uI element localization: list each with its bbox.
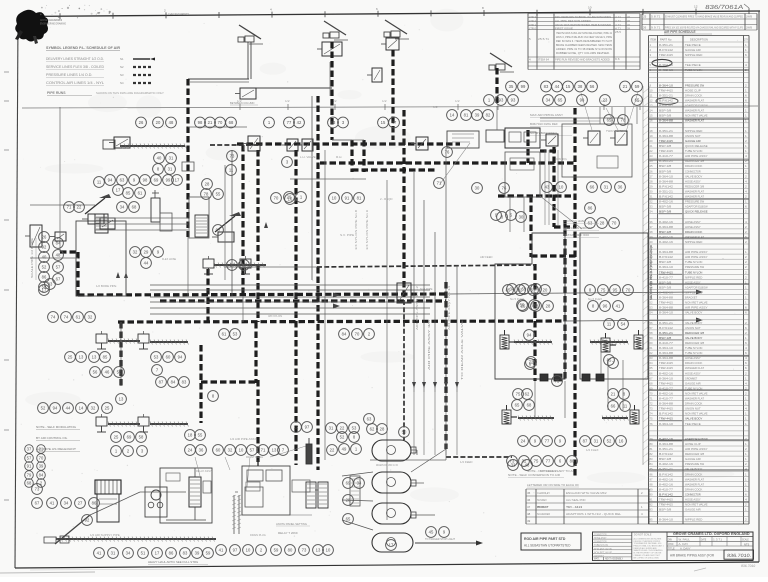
svg-text:HOSE ASSY: HOSE ASSY	[685, 179, 701, 183]
svg-text:55: 55	[117, 370, 122, 375]
svg-text:49: 49	[342, 447, 347, 452]
svg-text:34: 34	[64, 501, 69, 506]
svg-text:NON RET VALVE: NON RET VALVE	[685, 392, 708, 396]
svg-text:CONNECTOR: CONNECTOR	[685, 169, 701, 173]
svg-text:31: 31	[329, 426, 334, 431]
svg-text:34: 34	[120, 205, 125, 210]
svg-text:32: 32	[650, 200, 654, 204]
svg-text:AIR PIPE ASSY No 12: AIR PIPE ASSY No 12	[415, 285, 419, 330]
svg-text:88: 88	[650, 482, 654, 486]
svg-text:8-364-10: 8-364-10	[659, 174, 673, 178]
svg-text:TO REAR AXLE VALVE: TO REAR AXLE VALVE	[460, 320, 464, 380]
svg-text:80: 80	[288, 548, 293, 553]
svg-text:BSP-3/8: BSP-3/8	[659, 144, 672, 148]
svg-text:22: 22	[340, 426, 345, 431]
svg-text:B.P.6142: B.P.6142	[659, 99, 673, 103]
svg-text:70: 70	[626, 288, 631, 293]
svg-text:44: 44	[555, 84, 560, 89]
svg-text:29: 29	[287, 195, 292, 200]
svg-text:63: 63	[531, 288, 536, 293]
svg-text:REDUCER 3/8: REDUCER 3/8	[685, 184, 704, 188]
svg-text:HOSE CLIP: HOSE CLIP	[685, 442, 701, 446]
svg-text:FRONT PANEL: FRONT PANEL	[246, 455, 264, 459]
svg-text:29: 29	[650, 184, 654, 188]
svg-text:PART No: PART No	[660, 38, 672, 42]
svg-text:39: 39	[195, 551, 200, 556]
svg-text:68: 68	[527, 403, 532, 408]
svg-text:30: 30	[650, 190, 654, 194]
svg-text:31: 31	[169, 156, 174, 161]
svg-text:A. DAVY: A. DAVY	[680, 546, 691, 550]
svg-text:35: 35	[509, 84, 514, 89]
svg-text:89: 89	[242, 263, 247, 268]
svg-text:17: 17	[155, 551, 160, 556]
svg-text:1/2 FLEX: 1/2 FLEX	[586, 448, 599, 452]
svg-text:17: 17	[389, 543, 394, 548]
svg-text:99: 99	[521, 84, 526, 89]
svg-text:WASHER FLAT: WASHER FLAT	[685, 190, 704, 194]
svg-text:37: 37	[650, 225, 654, 229]
svg-text:91: 91	[27, 464, 32, 469]
svg-text:94: 94	[230, 263, 235, 268]
svg-text:21: 21	[623, 84, 628, 89]
svg-text:DESCRIPTION: DESCRIPTION	[690, 38, 708, 42]
svg-text:89: 89	[650, 487, 654, 491]
svg-text:TEE PIECE: TEE PIECE	[685, 43, 701, 47]
svg-text:11: 11	[623, 404, 628, 409]
svg-text:HOSE ASSY: HOSE ASSY	[594, 537, 607, 540]
svg-text:SYMBOL LEGEND P.L. SCHEDULE: SYMBOL LEGEND P.L. SCHEDULE OF AIR	[46, 46, 120, 50]
svg-text:PIPE RUNS: PIPE RUNS	[47, 91, 66, 95]
svg-text:98: 98	[580, 98, 585, 103]
svg-text:TRW-4415: TRW-4415	[659, 498, 673, 502]
svg-text:B36/7010 DWG REF: B36/7010 DWG REF	[530, 122, 558, 126]
svg-text:68: 68	[650, 381, 654, 385]
svg-text:60: 60	[216, 448, 221, 453]
svg-text:VALVE BODY: VALVE BODY	[685, 174, 702, 178]
svg-text:8-364-10: 8-364-10	[659, 422, 673, 426]
svg-text:8-364-88: 8-364-88	[659, 250, 673, 254]
svg-text:84: 84	[56, 241, 61, 246]
svg-text:N2: N2	[120, 65, 124, 69]
svg-text:ITEM: ITEM	[650, 38, 656, 42]
svg-text:36: 36	[199, 448, 204, 453]
svg-text:98: 98	[198, 120, 203, 125]
svg-text:12: 12	[694, 5, 698, 9]
svg-text:JW/B: JW/B	[746, 26, 752, 30]
svg-text:WASHER FLAT: WASHER FLAT	[685, 195, 704, 199]
svg-text:No 6 FLEX: No 6 FLEX	[588, 297, 602, 301]
svg-text:FIRST ISSUE: FIRST ISSUE	[555, 27, 573, 31]
svg-text:10: 10	[246, 548, 251, 553]
svg-text:8-351-21: 8-351-21	[659, 331, 673, 335]
svg-text:73: 73	[302, 548, 307, 553]
svg-text:NON RET VALVE: NON RET VALVE	[594, 548, 612, 551]
svg-text:NOTE - SELF CONVERSION TO A: NOTE - SELF CONVERSION TO AIR	[508, 473, 560, 477]
svg-text:25.5.71: 25.5.71	[538, 37, 550, 41]
svg-text:NTS: NTS	[744, 542, 749, 546]
svg-text:B.P.6142: B.P.6142	[659, 255, 673, 259]
svg-text:14: 14	[450, 113, 455, 118]
svg-text:4.71: 4.71	[615, 15, 622, 19]
svg-text:13: 13	[79, 355, 84, 360]
svg-text:70: 70	[218, 120, 223, 125]
svg-text:13: 13	[272, 448, 277, 453]
svg-text:4.71: 4.71	[615, 19, 622, 23]
svg-text:NON RET VALVE: NON RET VALVE	[685, 114, 708, 118]
svg-text:NIPPLE RED: NIPPLE RED	[685, 53, 703, 57]
svg-text:49: 49	[527, 519, 531, 523]
svg-text:AIR PIPE ASSY: AIR PIPE ASSY	[685, 250, 708, 254]
svg-text:8-364-10: 8-364-10	[659, 518, 673, 522]
svg-text:84: 84	[650, 462, 654, 466]
svg-text:26: 26	[42, 235, 47, 240]
svg-text:WASHER FLAT: WASHER FLAT	[685, 482, 704, 486]
svg-text:95: 95	[650, 518, 654, 522]
svg-text:PIPE RUN REVISED AND BRACKETS: PIPE RUN REVISED AND BRACKETS ADDED	[555, 58, 610, 62]
svg-text:TUBE NYLON: TUBE NYLON	[685, 351, 702, 355]
svg-text:62: 62	[525, 392, 530, 397]
svg-text:NIPPLE RED: NIPPLE RED	[685, 518, 703, 522]
svg-text:40: 40	[42, 255, 47, 260]
svg-text:41: 41	[50, 501, 55, 506]
svg-text:71: 71	[67, 205, 72, 210]
svg-text:77: 77	[546, 459, 551, 464]
svg-text:22: 22	[330, 448, 335, 453]
svg-text:50: 50	[402, 430, 407, 435]
svg-text:BY AIR CONTROL OIL: BY AIR CONTROL OIL	[36, 436, 68, 440]
svg-text:LTR 0: LTR 0	[529, 27, 536, 31]
svg-text:UNION NUT: UNION NUT	[685, 326, 701, 330]
svg-text:23: 23	[603, 98, 608, 103]
svg-text:32: 32	[88, 315, 93, 320]
svg-text:11: 11	[650, 94, 654, 98]
svg-text:BSP-3/8: BSP-3/8	[659, 508, 672, 512]
svg-text:85: 85	[607, 358, 612, 363]
svg-text:BSP-3/8: BSP-3/8	[659, 457, 672, 461]
svg-text:58: 58	[139, 435, 144, 440]
svg-text:57: 57	[56, 265, 61, 270]
svg-text:HOSE ASSY: HOSE ASSY	[685, 220, 701, 224]
svg-text:47: 47	[527, 505, 531, 509]
svg-text:22: 22	[650, 149, 654, 153]
svg-text:45: 45	[650, 265, 654, 269]
svg-text:28: 28	[380, 427, 385, 432]
svg-text:TITLE: TITLE	[668, 548, 675, 550]
svg-text:BSP-3/8: BSP-3/8	[659, 285, 672, 289]
svg-text:13: 13	[316, 548, 321, 553]
svg-text:JW/B: JW/B	[746, 15, 752, 19]
svg-text:26: 26	[139, 120, 144, 125]
svg-text:60: 60	[166, 355, 171, 360]
svg-text:BSP-3/8: BSP-3/8	[659, 169, 672, 173]
svg-text:8-364-10: 8-364-10	[659, 311, 673, 315]
svg-text:83: 83	[650, 457, 654, 461]
svg-text:9.9.71: 9.9.71	[651, 26, 661, 30]
svg-text:86: 86	[588, 206, 593, 211]
svg-text:97: 97	[233, 548, 238, 553]
svg-text:71: 71	[261, 448, 266, 453]
svg-text:8-351-21: 8-351-21	[659, 467, 673, 471]
svg-text:91: 91	[650, 498, 654, 502]
svg-text:GAUGE AIR: GAUGE AIR	[685, 139, 701, 143]
svg-text:TEE PIECE: TEE PIECE	[685, 63, 701, 67]
svg-text:CHKD: CHKD	[668, 544, 674, 546]
svg-text:59: 59	[635, 84, 640, 89]
svg-text:8-351-21: 8-351-21	[659, 129, 673, 133]
svg-text:57: 57	[27, 456, 32, 461]
svg-text:48: 48	[169, 120, 174, 125]
svg-text:WASHER FLAT: WASHER FLAT	[685, 397, 704, 401]
svg-text:AIR PIPE ASSY 3/8: AIR PIPE ASSY 3/8	[427, 319, 431, 370]
svg-text:836.7010.: 836.7010.	[727, 553, 752, 558]
svg-text:No4 PIPE: No4 PIPE	[420, 287, 433, 291]
svg-text:68: 68	[27, 481, 32, 486]
svg-text:34: 34	[546, 98, 551, 103]
svg-text:32: 32	[133, 250, 138, 255]
svg-text:83: 83	[183, 551, 188, 556]
svg-text:8-351-21: 8-351-21	[659, 447, 673, 451]
svg-text:29: 29	[144, 250, 149, 255]
svg-text:TRI - 4413: TRI - 4413	[566, 505, 583, 509]
svg-text:BSP-3/8: BSP-3/8	[659, 230, 672, 234]
svg-text:DRAIN COCK: DRAIN COCK	[685, 164, 702, 168]
svg-text:69: 69	[127, 435, 132, 440]
svg-text:HOSE ASSY: HOSE ASSY	[685, 371, 701, 375]
svg-text:8-402-16: 8-402-16	[659, 477, 673, 481]
svg-text:45: 45	[527, 491, 531, 495]
svg-text:13: 13	[119, 397, 124, 402]
svg-text:10: 10	[326, 548, 331, 553]
svg-text:8-364-10: 8-364-10	[659, 83, 673, 87]
svg-text:85: 85	[506, 288, 511, 293]
svg-text:NIPPLE RED: NIPPLE RED	[685, 129, 703, 133]
svg-text:DELIVERY LINES STRAIGHT 1/2: DELIVERY LINES STRAIGHT 1/2 O.D.	[46, 57, 104, 61]
svg-text:85: 85	[126, 191, 131, 196]
svg-text:GAUGE AIR: GAUGE AIR	[685, 381, 701, 385]
svg-text:1/4 NYLON PIPE No 8: 1/4 NYLON PIPE No 8	[354, 209, 358, 250]
svg-text:VALVE BODY: VALVE BODY	[685, 321, 702, 325]
svg-text:WASHER FLAT: WASHER FLAT	[685, 366, 704, 370]
svg-text:S.V. PIPE: S.V. PIPE	[340, 233, 354, 237]
svg-text:DATE: DATE	[701, 538, 707, 541]
svg-text:10: 10	[588, 5, 592, 9]
svg-text:31: 31	[594, 439, 599, 444]
svg-text:39: 39	[475, 113, 480, 118]
svg-text:37: 37	[27, 447, 32, 452]
svg-text:55: 55	[216, 192, 221, 197]
svg-text:NIPPLE RED: NIPPLE RED	[685, 240, 703, 244]
svg-text:SCHRADER: SCHRADER	[537, 512, 550, 516]
svg-text:8-364-88: 8-364-88	[659, 356, 673, 360]
svg-text:CONNECTOR: CONNECTOR	[685, 493, 701, 497]
svg-text:8-402-16: 8-402-16	[659, 291, 673, 295]
svg-text:11: 11	[607, 322, 612, 327]
svg-text:QUICK RELEASE: QUICK RELEASE	[685, 144, 708, 148]
svg-text:8-364-10: 8-364-10	[659, 265, 673, 269]
svg-text:76: 76	[502, 186, 507, 191]
svg-text:84: 84	[342, 332, 347, 337]
svg-text:82: 82	[650, 452, 654, 456]
svg-text:36: 36	[650, 220, 654, 224]
svg-text:AIR PIPE SCHEDULE: AIR PIPE SCHEDULE	[664, 30, 696, 34]
svg-text:TRW-4415: TRW-4415	[659, 53, 673, 57]
svg-text:93: 93	[650, 508, 654, 512]
svg-text:DO NOT SCALE: DO NOT SCALE	[634, 534, 652, 537]
svg-text:TUBE NYLON: TUBE NYLON	[594, 544, 608, 547]
svg-text:TRW-4415: TRW-4415	[659, 270, 673, 274]
svg-text:53: 53	[154, 355, 159, 360]
svg-text:NEXT ASSEMBLY: NEXT ASSEMBLY	[605, 558, 623, 561]
svg-text:4.71: 4.71	[615, 27, 622, 31]
svg-text:77: 77	[287, 120, 292, 125]
svg-text:DRAIN COCK: DRAIN COCK	[685, 94, 702, 98]
svg-text:26: 26	[643, 26, 647, 30]
svg-text:A. DAY: A. DAY	[679, 542, 689, 546]
svg-text:65: 65	[558, 98, 563, 103]
svg-text:86: 86	[169, 551, 174, 556]
svg-text:1/2: 1/2	[285, 99, 290, 103]
svg-text:44: 44	[650, 260, 654, 264]
svg-text:GROVE CRANES LTD. OXFORD ENGL: GROVE CRANES LTD. OXFORD ENGLAND	[673, 531, 750, 536]
svg-text:60: 60	[650, 341, 654, 345]
svg-text:DRN: DRN	[668, 539, 672, 541]
svg-text:NON RET VALVE: NON RET VALVE	[685, 503, 708, 507]
svg-text:32: 32	[228, 448, 233, 453]
svg-text:20: 20	[543, 288, 548, 293]
svg-text:65: 65	[650, 366, 654, 370]
svg-text:SUNDEX: SUNDEX	[537, 498, 547, 502]
svg-text:13: 13	[650, 104, 654, 108]
svg-text:TRW-4415: TRW-4415	[659, 366, 673, 370]
svg-text:25: 25	[650, 164, 654, 168]
svg-text:87: 87	[159, 380, 164, 385]
svg-text:26: 26	[650, 169, 654, 173]
svg-text:ANOTH PANEL SETTING: ANOTH PANEL SETTING	[276, 522, 307, 526]
svg-text:1/2: 1/2	[455, 99, 460, 103]
svg-text:JW: JW	[627, 23, 630, 27]
svg-text:50: 50	[650, 291, 654, 295]
svg-text:8-410-77: 8-410-77	[659, 487, 673, 491]
svg-text:86: 86	[42, 275, 47, 280]
svg-text:81: 81	[357, 196, 362, 201]
svg-text:AIR FEED: AIR FEED	[480, 255, 493, 259]
svg-text:PRESSURE LINES 1/4 O.D.: PRESSURE LINES 1/4 O.D.	[46, 73, 93, 77]
svg-text:8-351-21: 8-351-21	[659, 321, 673, 325]
svg-text:76: 76	[650, 422, 654, 426]
svg-text:MOUNTING LEVEL: MOUNTING LEVEL	[563, 219, 586, 223]
svg-text:B.P.6142: B.P.6142	[659, 326, 673, 330]
svg-text:97: 97	[305, 425, 310, 430]
svg-text:10: 10	[650, 88, 654, 92]
svg-text:78: 78	[204, 192, 209, 197]
svg-text:8-364-88: 8-364-88	[659, 225, 673, 229]
svg-text:12: 12	[650, 99, 654, 103]
svg-text:27: 27	[650, 174, 654, 178]
svg-text:31: 31	[604, 185, 609, 190]
svg-text:85: 85	[650, 467, 654, 471]
svg-text:11: 11	[229, 168, 234, 173]
svg-text:46: 46	[527, 498, 531, 502]
svg-text:25: 25	[521, 304, 526, 309]
svg-text:31: 31	[650, 195, 654, 199]
svg-text:836.7010: 836.7010	[741, 564, 756, 568]
svg-text:UNION NUT: UNION NUT	[685, 407, 701, 411]
svg-text:33: 33	[650, 205, 654, 209]
svg-text:15: 15	[566, 84, 571, 89]
svg-text:25: 25	[643, 15, 647, 19]
svg-text:HOSE ASSY: HOSE ASSY	[685, 225, 701, 229]
svg-text:TRW-4415: TRW-4415	[659, 361, 673, 365]
svg-text:TRW-4415: TRW-4415	[659, 139, 673, 143]
svg-text:73: 73	[650, 407, 654, 411]
svg-text:96: 96	[603, 304, 608, 309]
svg-text:65: 65	[346, 517, 351, 522]
svg-text:54: 54	[621, 322, 626, 327]
svg-text:ENGINEERING DRAWING: ENGINEERING DRAWING	[40, 22, 66, 26]
svg-text:836/7061A: 836/7061A	[705, 5, 744, 11]
svg-text:B.P.6142: B.P.6142	[659, 452, 673, 456]
svg-text:HEAVY HAUL ARTIC SEE FULL STR: HEAVY HAUL ARTIC SEE FULL STRG	[148, 560, 198, 564]
svg-text:QUICK RELEASE: QUICK RELEASE	[685, 210, 708, 214]
svg-text:10: 10	[332, 196, 337, 201]
svg-text:75: 75	[555, 379, 560, 384]
svg-text:18: 18	[188, 433, 193, 438]
svg-text:NOTE REF 4: NOTE REF 4	[540, 469, 556, 473]
svg-text:8-410-77: 8-410-77	[659, 275, 673, 279]
svg-text:14: 14	[79, 406, 84, 411]
svg-text:40: 40	[157, 156, 162, 161]
svg-text:65: 65	[515, 403, 520, 408]
svg-text:79: 79	[27, 473, 32, 478]
svg-text:TRW-4415: TRW-4415	[659, 407, 673, 411]
svg-text:84: 84	[39, 473, 44, 478]
svg-text:74: 74	[650, 412, 654, 416]
svg-text:TRW-4415: TRW-4415	[659, 381, 673, 385]
svg-text:66: 66	[590, 185, 595, 190]
svg-text:SCALE: SCALE	[742, 538, 749, 541]
svg-text:21: 21	[611, 392, 616, 397]
svg-text:32: 32	[91, 406, 96, 411]
svg-text:ITEM 64: ITEM 64	[538, 58, 550, 62]
svg-text:REDUCER 3/8: REDUCER 3/8	[685, 452, 704, 456]
svg-text:BSP-3/8: BSP-3/8	[659, 164, 672, 168]
svg-text:1/2 BORE PIPE: 1/2 BORE PIPE	[96, 284, 117, 288]
svg-text:PRESSURE SW: PRESSURE SW	[685, 200, 704, 204]
svg-text:52: 52	[607, 439, 612, 444]
svg-text:54: 54	[650, 311, 654, 315]
svg-text:67: 67	[56, 277, 61, 282]
svg-text:59: 59	[274, 548, 279, 553]
svg-text:74: 74	[51, 315, 56, 320]
svg-text:1.3.71: 1.3.71	[713, 537, 723, 541]
svg-text:PRODUCT: PRODUCT	[537, 505, 549, 509]
svg-text:CHARNLEY: CHARNLEY	[537, 491, 550, 495]
svg-text:MAX AIR PIPING ASSY: MAX AIR PIPING ASSY	[530, 113, 563, 117]
svg-text:8-410-77: 8-410-77	[659, 154, 673, 158]
svg-text:25: 25	[68, 355, 73, 360]
svg-text:51: 51	[141, 551, 146, 556]
svg-text:83: 83	[182, 380, 187, 385]
svg-text:AIR BRAKE PIPING ASSY (FOR: AIR BRAKE PIPING ASSY (FOR	[670, 554, 715, 558]
svg-text:WASHER FLAT: WASHER FLAT	[685, 99, 704, 103]
svg-text:47: 47	[650, 275, 654, 279]
svg-text:90: 90	[650, 493, 654, 497]
svg-text:13: 13	[92, 355, 97, 360]
svg-text:23: 23	[650, 154, 654, 158]
svg-text:62: 62	[650, 351, 654, 355]
svg-text:56: 56	[650, 321, 654, 325]
